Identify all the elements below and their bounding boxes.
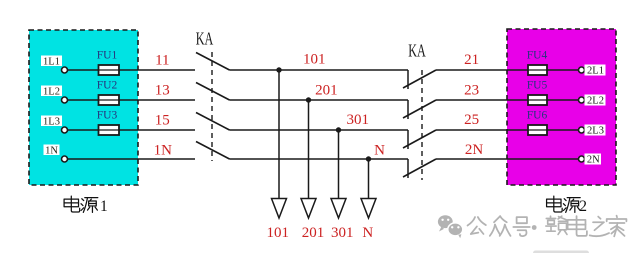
wire right row 2	[436, 99, 579, 101]
svg-text:1L3: 1L3	[43, 117, 60, 128]
relay label KA right	[408, 40, 426, 60]
svg-text:21: 21	[464, 52, 479, 68]
contact KA left pole 1	[196, 53, 230, 71]
wire left row 1	[67, 69, 195, 71]
wire label 201	[315, 82, 338, 98]
contact KA right pole 3	[403, 130, 436, 149]
arrow label 101	[266, 225, 289, 241]
relay label KA left	[196, 28, 214, 48]
svg-text:FU1: FU1	[97, 50, 118, 62]
contact linkage KA right (dashed)	[421, 70, 423, 180]
wire label 15	[155, 112, 170, 128]
wire label 21	[464, 52, 479, 68]
wire label 301	[347, 112, 370, 128]
arrow terminal 301	[331, 199, 346, 219]
svg-text:N: N	[362, 225, 373, 241]
svg-text:FU5: FU5	[527, 80, 548, 92]
power source box 电源2	[507, 29, 616, 185]
svg-text:FU2: FU2	[97, 80, 118, 92]
contact KA right pole 2	[403, 100, 436, 119]
arrow label 301	[331, 225, 354, 241]
contact KA right pole 1	[403, 70, 436, 89]
fuse FU2	[97, 80, 119, 106]
arrow terminal N	[361, 199, 376, 219]
svg-text:FU6: FU6	[527, 110, 548, 122]
wire label 25	[464, 112, 479, 128]
svg-text:KA: KA	[196, 28, 214, 48]
node N (junction dot)	[366, 156, 371, 161]
svg-text:301: 301	[331, 225, 354, 241]
fuse FU3	[97, 110, 119, 136]
label 电源2	[547, 196, 587, 215]
wire middle row 2	[230, 99, 409, 101]
terminal 1L3	[41, 116, 68, 134]
contact KA left pole 2	[196, 83, 230, 101]
svg-text:2L1: 2L1	[587, 66, 604, 77]
svg-text:201: 201	[315, 82, 338, 98]
wire label 2N	[465, 142, 484, 158]
wire right row 3	[436, 129, 579, 131]
svg-text:N: N	[374, 142, 385, 158]
wire label 1N	[154, 142, 173, 158]
wire dropper 101	[278, 70, 280, 199]
svg-text:11: 11	[155, 52, 169, 68]
contact KA left pole 4	[196, 142, 230, 160]
terminal 2L1	[579, 65, 606, 77]
svg-text:13: 13	[155, 82, 170, 98]
svg-text:201: 201	[302, 225, 325, 241]
wire label 101	[303, 51, 326, 67]
wire label 23	[464, 82, 479, 98]
wire middle row 4	[230, 158, 409, 160]
label 电源1	[64, 196, 108, 215]
fuse FU4	[527, 50, 548, 76]
wire label 11	[155, 52, 169, 68]
wire label 13	[155, 82, 170, 98]
wire left row 4	[67, 158, 195, 160]
wire left row 2	[67, 99, 195, 101]
svg-text:101: 101	[303, 51, 326, 67]
wire middle row 3	[230, 129, 409, 131]
node 301 (junction dot)	[336, 127, 341, 132]
arrow terminal 101	[272, 199, 287, 219]
watermark text 公众号·赣电之家	[468, 216, 627, 237]
svg-text:2N: 2N	[465, 142, 484, 158]
terminal 1L1	[41, 56, 68, 74]
svg-text:1N: 1N	[154, 142, 173, 158]
fuse FU5	[527, 80, 548, 106]
wire dropper 201	[308, 100, 310, 199]
svg-text:FU3: FU3	[97, 110, 118, 122]
terminal 1N	[44, 145, 68, 163]
wire right row 4	[436, 158, 579, 160]
svg-text:FU4: FU4	[527, 50, 548, 62]
svg-text:2L2: 2L2	[587, 96, 604, 107]
watermark WeChat icon	[438, 215, 463, 238]
arrow label 201	[302, 225, 325, 241]
wire dropper N	[368, 159, 370, 199]
watermark bottom remnant	[533, 251, 589, 256]
svg-text:1L1: 1L1	[43, 57, 60, 68]
arrow label N	[362, 225, 373, 241]
terminal 1L2	[41, 86, 68, 104]
svg-text:2L3: 2L3	[587, 126, 604, 137]
terminal 2L2	[579, 95, 606, 107]
wire left row 3	[67, 129, 195, 131]
svg-text:101: 101	[266, 225, 289, 241]
svg-text:2: 2	[579, 198, 587, 215]
arrow terminal 201	[301, 199, 316, 219]
svg-text:KA: KA	[408, 40, 426, 60]
wire middle row 1	[230, 69, 409, 71]
svg-text:1L2: 1L2	[43, 87, 60, 98]
power source box 电源1	[29, 30, 138, 185]
svg-text:301: 301	[347, 112, 370, 128]
svg-text:25: 25	[464, 112, 479, 128]
wire right row 1	[436, 69, 579, 71]
node 201 (junction dot)	[306, 97, 311, 102]
contact KA left pole 3	[196, 113, 230, 131]
svg-text:2N: 2N	[587, 155, 600, 166]
contact linkage KA left (dashed)	[211, 52, 213, 161]
contact KA right pole 4	[403, 159, 436, 178]
node 101 (junction dot)	[276, 67, 281, 72]
svg-text:15: 15	[155, 112, 170, 128]
terminal 2L3	[579, 125, 606, 137]
fuse FU6	[527, 110, 548, 136]
fuse FU1	[97, 50, 119, 76]
svg-text:1N: 1N	[45, 146, 58, 157]
wire label N	[374, 142, 385, 158]
terminal 2N	[579, 154, 602, 166]
svg-text:1: 1	[100, 198, 108, 215]
wire dropper 301	[338, 130, 340, 199]
svg-text:23: 23	[464, 82, 479, 98]
